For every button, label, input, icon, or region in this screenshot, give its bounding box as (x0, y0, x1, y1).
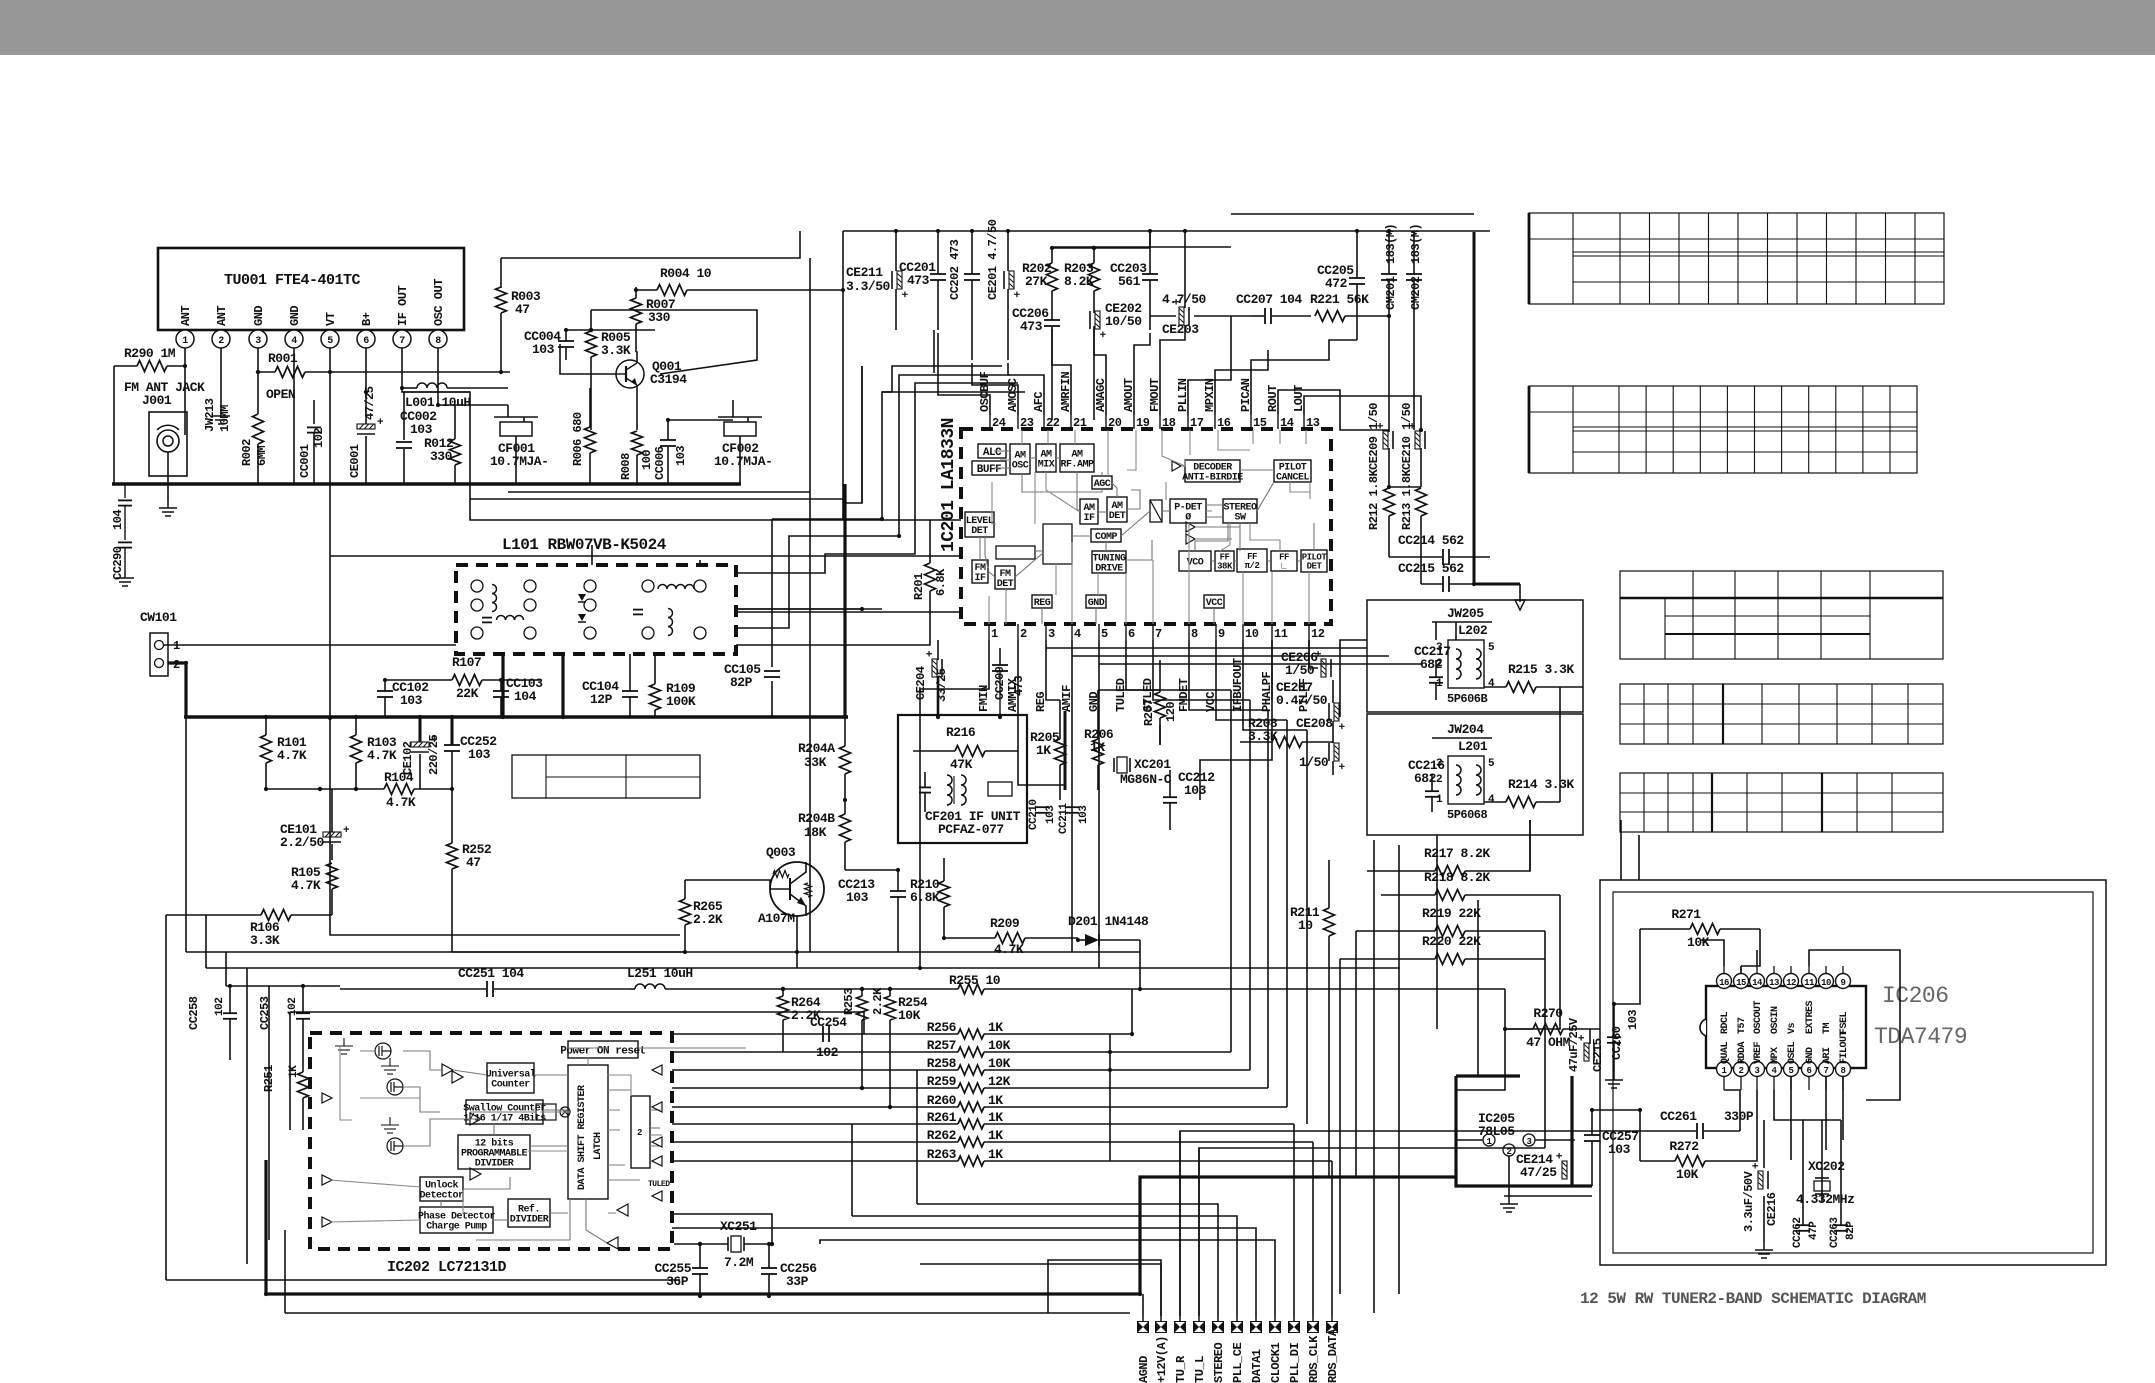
svg-text:CM201: CM201 (1384, 276, 1398, 310)
thick bus CW101 pin2 (168, 663, 186, 717)
ground CC290 (124, 570, 126, 578)
svg-text:1K: 1K (988, 1147, 1003, 1162)
IC201 block ALC (978, 444, 1006, 458)
svg-text:VREF: VREF (1753, 1041, 1764, 1064)
svg-text:1K: 1K (988, 1020, 1003, 1035)
connector pin TU_L (1193, 1321, 1205, 1333)
svg-text:TDA7479: TDA7479 (1874, 1024, 1967, 1050)
IC202 extra internal wiring (340, 1045, 352, 1120)
L101 terminals and coils (471, 580, 483, 592)
IC202 mixer circle (560, 1107, 570, 1117)
svg-text:R253: R253 (842, 988, 856, 1015)
svg-text:ANT: ANT (179, 306, 193, 326)
capacitor CC211 103 (1065, 806, 1079, 808)
tuner module TU001 FTE4-401TC outline (158, 248, 464, 330)
svg-text:7: 7 (1824, 1066, 1829, 1076)
svg-text:R209: R209 (990, 916, 1020, 931)
wire jack stem (167, 452, 169, 500)
IC206 pin 15 T57 (1734, 974, 1749, 989)
IC201 pin 18 FMOUT (1159, 415, 1161, 429)
svg-text:3.3K: 3.3K (250, 933, 280, 948)
wire R001 run (258, 371, 275, 373)
svg-text:5P6068: 5P6068 (1447, 808, 1488, 822)
wire CW101 pin1 to L101 (163, 644, 456, 646)
transformer box JW204 L201 (1367, 714, 1583, 835)
svg-text:JW204: JW204 (1447, 722, 1484, 737)
wire pin7 IFOUT (402, 348, 470, 392)
svg-text:CC210: CC210 (1028, 799, 1040, 830)
svg-text:13: 13 (1306, 416, 1320, 430)
svg-text:2.2K: 2.2K (871, 987, 885, 1015)
wire pin8 OSCOUT (438, 348, 508, 405)
svg-text:CLOCK1: CLOCK1 (1269, 1342, 1283, 1383)
svg-text:4: 4 (1488, 794, 1495, 806)
svg-text:CC211: CC211 (1058, 803, 1070, 834)
IC201 block REG (1032, 595, 1052, 608)
svg-text:5: 5 (1789, 1066, 1794, 1076)
svg-text:R259: R259 (927, 1074, 957, 1089)
svg-text:14: 14 (1280, 416, 1294, 430)
svg-text:220/25: 220/25 (427, 734, 441, 775)
svg-text:21: 21 (1073, 416, 1087, 430)
wire lower right connections (1504, 989, 1506, 1029)
svg-text:4: 4 (1488, 678, 1495, 690)
transistor Q001 C3194 (616, 360, 644, 388)
resistor R006 680 (585, 427, 596, 453)
capacitor CC102 103 (377, 690, 393, 692)
IC206 pin 9 FSEL (1836, 974, 1851, 989)
svg-text:+: + (1577, 1034, 1589, 1041)
IC201 block fm demod diode (1150, 500, 1162, 522)
IC201 pin 5 GND (1098, 624, 1100, 640)
svg-text:0.47/50: 0.47/50 (1276, 693, 1328, 708)
svg-text:DIVIDER: DIVIDER (510, 1215, 549, 1226)
capacitor CC210 103 (1035, 806, 1049, 808)
svg-text:π/2: π/2 (1245, 561, 1260, 571)
svg-text:XC251: XC251 (720, 1219, 757, 1234)
svg-text:CE208: CE208 (1296, 716, 1333, 731)
svg-text:24: 24 (992, 416, 1006, 430)
svg-text:11: 11 (1274, 627, 1288, 641)
arrow down symbol (1519, 584, 1521, 602)
svg-text:ARI: ARI (1822, 1047, 1833, 1064)
IC202 internal wiring (403, 1051, 442, 1070)
svg-text:OSCOUT: OSCOUT (1753, 1000, 1764, 1034)
svg-text:Power ON reset: Power ON reset (560, 1045, 645, 1057)
connector pin PLL_DI (1288, 1321, 1300, 1333)
svg-text:+: + (1408, 422, 1420, 429)
svg-text:3.3K: 3.3K (601, 343, 631, 358)
IC201 pin 14 ROUT (1277, 415, 1279, 429)
svg-text:R008: R008 (619, 453, 633, 480)
svg-text:Q003: Q003 (766, 845, 796, 860)
resistor R252 47 (447, 843, 458, 869)
svg-text:4: 4 (1074, 627, 1081, 641)
svg-text:C3194: C3194 (650, 372, 687, 387)
svg-text:R257: R257 (927, 1038, 956, 1053)
IC201 block LEVEL DET (965, 512, 994, 537)
wire bottom thin rail (285, 1312, 1130, 1314)
svg-text:CE203: CE203 (1162, 322, 1199, 337)
wire connector risers (1142, 1294, 1144, 1316)
svg-text:GND: GND (1088, 598, 1105, 609)
IC201 block GND (1086, 595, 1106, 608)
svg-text:R006 680: R006 680 (571, 412, 585, 466)
svg-text:MG86N-C: MG86N-C (1120, 772, 1172, 787)
resistor R207 120 (1155, 692, 1166, 718)
svg-text:DIVIDER: DIVIDER (475, 1159, 514, 1170)
svg-text:47uF/25V: 47uF/25V (1567, 1017, 1581, 1072)
svg-text:9: 9 (1841, 978, 1846, 988)
thick vertical ground drop (843, 484, 846, 717)
svg-text:R261: R261 (927, 1110, 957, 1125)
IC201 block mixer (1043, 524, 1072, 564)
svg-text:+: + (1751, 1162, 1763, 1169)
svg-text:5P606B: 5P606B (1447, 692, 1488, 706)
svg-text:+: + (1334, 723, 1346, 730)
connector jack J001 (149, 412, 187, 476)
svg-text:R207: R207 (1142, 699, 1156, 726)
wire top bus y214 (1231, 213, 1474, 215)
svg-text:R107: R107 (452, 655, 481, 670)
IC201 block FF pi/2 (1237, 549, 1267, 572)
svg-text:5: 5 (1488, 758, 1495, 770)
svg-text:22K: 22K (456, 686, 479, 701)
table spec A (1529, 213, 1944, 304)
IC IC206 body (1706, 986, 1866, 1068)
svg-text:R270: R270 (1533, 1006, 1563, 1021)
coil block L101 dashed outline (456, 565, 736, 654)
ground bus under TU001 (112, 482, 741, 485)
svg-text:5: 5 (327, 336, 333, 347)
svg-text:DATA SHIFT REGISTER: DATA SHIFT REGISTER (577, 1085, 588, 1190)
svg-text:8: 8 (1191, 627, 1198, 641)
table spec C (1620, 571, 1943, 659)
thick ground bus mid (184, 715, 848, 718)
svg-text:27K: 27K (1025, 274, 1048, 289)
IC201 pin 11 PHALPF (1271, 624, 1273, 640)
ceramic filter CF001 10.7MJA- (500, 422, 532, 436)
svg-text:33P: 33P (786, 1274, 809, 1289)
wire mesh ic201 bottom drops (920, 640, 989, 968)
wire pin1 down (184, 348, 186, 435)
capacitor CC001 102 (313, 400, 315, 424)
wire pin4 down (293, 348, 295, 484)
svg-text:1: 1 (182, 336, 188, 347)
svg-text:+12V(A): +12V(A) (1155, 1336, 1169, 1383)
svg-text:12K: 12K (988, 1074, 1011, 1089)
svg-text:STEREO: STEREO (1212, 1342, 1226, 1383)
svg-text:SW: SW (1234, 513, 1246, 524)
svg-text:103: 103 (1626, 1010, 1640, 1030)
svg-text:15: 15 (1736, 978, 1746, 988)
wire stepped feed a (892, 366, 1002, 392)
ground JW213 (220, 408, 222, 416)
IC201 block AM RF.AMP (1060, 444, 1094, 472)
svg-text:22: 22 (1046, 416, 1060, 430)
svg-text:47: 47 (515, 302, 530, 317)
svg-text:TU001 FTE4-401TC: TU001 FTE4-401TC (224, 272, 361, 289)
svg-text:104: 104 (111, 510, 125, 530)
IC201 pin 8 FMDET (1188, 624, 1190, 640)
svg-text:CC290: CC290 (111, 546, 125, 580)
svg-text:5: 5 (1488, 642, 1495, 654)
svg-text:+: + (897, 291, 909, 298)
svg-text:+: + (925, 650, 937, 657)
svg-text:1K: 1K (1036, 743, 1051, 758)
CF201 transformer (919, 786, 931, 788)
svg-text:MIX: MIX (1038, 460, 1055, 471)
svg-text:COMP: COMP (1095, 532, 1118, 543)
svg-text:47 OHM: 47 OHM (1526, 1035, 1571, 1050)
wire top-right runs (668, 419, 733, 421)
IC IC202 LC72131D dashed outline (310, 1033, 672, 1249)
svg-text:IC206: IC206 (1882, 983, 1949, 1009)
svg-text:CE215: CE215 (1591, 1038, 1605, 1072)
thick stubs L101 to bus (501, 654, 504, 717)
IC201 block P-DET (1170, 499, 1206, 523)
IC201 block STEREO SW (1223, 499, 1257, 523)
svg-text:330P: 330P (1724, 1109, 1754, 1124)
IC201 block VCO (1179, 551, 1211, 571)
svg-text:102: 102 (214, 998, 226, 1016)
svg-text:CE211: CE211 (846, 265, 883, 280)
IC206 pin 12 Vs (1784, 974, 1799, 989)
svg-text:330: 330 (648, 310, 671, 325)
capacitor CE202 10/50 (1090, 311, 1107, 338)
IC201 block TUNING DRIVE (1092, 551, 1126, 573)
svg-text:18K: 18K (804, 825, 827, 840)
connector pin PLL_CE (1231, 1321, 1243, 1333)
wire stepped feed d (772, 392, 1025, 519)
svg-text:2: 2 (1436, 774, 1442, 786)
svg-text:R218 8.2K: R218 8.2K (1424, 870, 1490, 885)
svg-text:4.332MHz: 4.332MHz (1796, 1192, 1854, 1207)
svg-text:XC201: XC201 (1134, 757, 1171, 772)
IC201 block VCC (1204, 595, 1224, 608)
svg-text:10K: 10K (988, 1056, 1011, 1071)
connector pin RDS_CLK (1307, 1321, 1319, 1333)
IC206 pin 14 OSCOUT (1750, 974, 1765, 989)
svg-text:TU_L: TU_L (1193, 1356, 1207, 1383)
svg-text:4.7K: 4.7K (994, 942, 1024, 957)
svg-text:CE210 1/50: CE210 1/50 (1400, 403, 1414, 470)
svg-text:CANCEL: CANCEL (1276, 473, 1310, 484)
svg-text:4.7K: 4.7K (277, 748, 307, 763)
wire R290 left (114, 365, 137, 367)
IC202 block DATA SHIFT REGISTER LATCH (568, 1065, 608, 1199)
svg-text:R215 3.3K: R215 3.3K (1508, 662, 1574, 677)
svg-text:R002: R002 (240, 439, 254, 466)
connector pin STEREO (1212, 1321, 1224, 1333)
svg-text:CE216: CE216 (1765, 1192, 1779, 1226)
svg-text:4.7K: 4.7K (386, 795, 416, 810)
connector pin +12V(A) (1155, 1321, 1167, 1333)
svg-text:120: 120 (1164, 702, 1178, 722)
IC201 block COMP (1091, 529, 1121, 542)
IC202 block Phase Detector Charge Pump (420, 1207, 493, 1233)
svg-text:PLL_CE: PLL_CE (1231, 1342, 1245, 1383)
capacitor CC290 104 (124, 484, 126, 498)
svg-text:47K: 47K (950, 757, 973, 772)
svg-text:L202: L202 (1458, 623, 1488, 638)
svg-text:103: 103 (674, 446, 688, 466)
IC201 pin 17 PLLIN (1187, 415, 1189, 429)
IC201 block if strip (996, 546, 1035, 559)
wire under-bus horizontals (470, 498, 845, 500)
svg-text:16: 16 (1719, 978, 1729, 988)
IC201 block FF 7 (1271, 551, 1297, 571)
svg-text:VT: VT (324, 312, 338, 326)
wire right verticals cluster (1328, 990, 1330, 1177)
svg-text:473: 473 (907, 273, 930, 288)
svg-text:FSEL: FSEL (1839, 1011, 1850, 1034)
wire long vertical osc feed (809, 258, 811, 952)
IC201 block PILOT DET (1301, 550, 1327, 572)
svg-text:R256: R256 (927, 1020, 957, 1035)
wire mesh left horizontals (166, 914, 206, 916)
TU001 pin 4 GND (285, 330, 303, 348)
svg-text:6MM: 6MM (255, 446, 269, 466)
ceramic filter CF002 10.7MJA- (724, 422, 756, 436)
svg-text:10K: 10K (1687, 935, 1710, 950)
IC206 pin 2 RDDA (1734, 1062, 1749, 1077)
svg-text:4: 4 (291, 336, 297, 347)
svg-text:R221 56K: R221 56K (1310, 292, 1369, 307)
IC206 pin 5 OSEL (1784, 1062, 1799, 1077)
svg-text:561: 561 (1118, 274, 1141, 289)
IC202 mos fets (375, 1043, 391, 1059)
svg-text:9: 9 (1218, 627, 1225, 641)
svg-text:R260: R260 (927, 1093, 957, 1108)
svg-text:R258: R258 (927, 1056, 957, 1071)
svg-text:Counter: Counter (491, 1080, 530, 1091)
svg-text:33K: 33K (804, 755, 827, 770)
svg-text:1C201 LA1833N: 1C201 LA1833N (939, 418, 959, 552)
IC202 block Ref DIVIDER (508, 1199, 550, 1227)
table spec D (1620, 684, 1943, 744)
svg-text:OSCIN: OSCIN (1770, 1006, 1781, 1034)
svg-text:AGC: AGC (1094, 479, 1111, 490)
svg-text:R262: R262 (927, 1128, 957, 1143)
svg-text:2: 2 (173, 658, 180, 672)
svg-text:103: 103 (1045, 805, 1057, 824)
svg-text:L001 10uH: L001 10uH (405, 395, 471, 410)
capacitor CE204 33/25 (925, 650, 942, 677)
thick rail bottom (266, 1160, 1592, 1294)
IC201 block AGC (1092, 476, 1112, 489)
svg-text:10MM: 10MM (218, 405, 232, 432)
svg-text:BUFF: BUFF (977, 464, 1001, 476)
svg-text:CC006: CC006 (653, 446, 667, 480)
IC201 block BUFF (972, 461, 1006, 475)
IC206 pin 3 VREF (1750, 1062, 1765, 1077)
svg-text:JW205: JW205 (1447, 606, 1484, 621)
svg-text:10K: 10K (1676, 1167, 1699, 1182)
svg-text:100: 100 (640, 450, 654, 470)
svg-text:R271: R271 (1671, 907, 1701, 922)
IC201 block PILOT CANCEL (1274, 460, 1311, 482)
IC201 internal gray wiring (994, 450, 1010, 452)
svg-text:FILOUT: FILOUT (1839, 1030, 1850, 1064)
IC206 pin 13 OSCIN (1767, 974, 1782, 989)
svg-text:A107M: A107M (758, 911, 795, 926)
svg-text:15: 15 (1253, 416, 1267, 430)
svg-text:682: 682 (1420, 657, 1443, 672)
svg-text:10: 10 (1821, 978, 1831, 988)
svg-text:OPEN: OPEN (266, 387, 295, 402)
svg-text:19: 19 (1136, 416, 1150, 430)
svg-text:12P: 12P (590, 692, 613, 707)
svg-text:TU_R: TU_R (1174, 1355, 1188, 1383)
svg-text:EXTRES: EXTRES (1805, 1000, 1816, 1034)
svg-text:2: 2 (637, 1128, 642, 1138)
wire R107 run (385, 679, 452, 681)
svg-text:8.2K: 8.2K (1064, 274, 1094, 289)
svg-text:Detector: Detector (419, 1191, 464, 1202)
svg-text:DET: DET (971, 526, 988, 537)
inductor L001 10uH (417, 383, 447, 388)
svg-text:R214 3.3K: R214 3.3K (1508, 777, 1574, 792)
svg-text:6.8K: 6.8K (934, 568, 948, 596)
svg-text:103: 103 (410, 422, 433, 437)
ground CC260 (1613, 1072, 1615, 1080)
svg-text:ANT: ANT (215, 306, 229, 326)
svg-text:L201: L201 (1458, 739, 1488, 754)
svg-text:47: 47 (466, 855, 481, 870)
varactor diodes L101 (578, 594, 586, 601)
svg-text:10.7MJA-: 10.7MJA- (714, 454, 772, 469)
IC201 pin 20 AMAGC (1105, 415, 1107, 429)
svg-text:3.3/50: 3.3/50 (846, 279, 891, 294)
resistor R290 1M (137, 361, 167, 372)
svg-text:82P: 82P (730, 675, 753, 690)
svg-text:82P: 82P (1845, 1221, 1857, 1240)
svg-text:REG: REG (1034, 598, 1051, 609)
resistor R002 6MM (257, 348, 259, 414)
svg-text:473: 473 (1012, 676, 1026, 696)
svg-text:OSC OUT: OSC OUT (432, 279, 446, 326)
IC201 pin 15 PICAN (1250, 415, 1252, 429)
svg-text:CE204: CE204 (914, 666, 928, 700)
connector pin TU_R (1174, 1321, 1186, 1333)
svg-text:CC202 473: CC202 473 (948, 239, 962, 300)
IC201 block AM DET (1107, 497, 1127, 522)
TU001 pin 8 OSC OUT (429, 330, 447, 348)
svg-text:R204A: R204A (798, 741, 835, 756)
svg-text:OSC: OSC (1012, 461, 1029, 472)
ground jack (167, 500, 169, 508)
IC201 pin 24 OSCBUF (989, 415, 991, 429)
svg-text:CM202: CM202 (1409, 276, 1423, 310)
wire row extensions (1110, 1051, 1231, 1053)
IC201 block AM MIX (1036, 444, 1056, 472)
wire jw box feeds (1389, 486, 1421, 488)
svg-text:4.7K: 4.7K (367, 748, 397, 763)
IC201 pin 21 AMRFIN (1070, 415, 1072, 429)
IC206 pin 7 ARI (1819, 1062, 1834, 1077)
wire CC105 column (771, 519, 773, 667)
capacitor CC006 103 (660, 439, 676, 441)
wire top right entries to IC206 box (1620, 820, 1622, 880)
resistor R103 4.7K (351, 735, 362, 763)
svg-text:11: 11 (1804, 978, 1815, 988)
wire top bus y231 (843, 230, 1490, 232)
svg-text:16: 16 (1217, 416, 1231, 430)
IC202 block 12bits programmable divider (458, 1135, 530, 1169)
svg-text:IF OUT: IF OUT (396, 285, 410, 326)
IC201 pin 22 AFC (1043, 415, 1045, 429)
